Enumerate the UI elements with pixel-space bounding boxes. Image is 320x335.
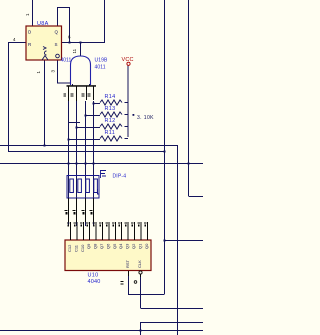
resistor R11 (100, 136, 122, 141)
wire (76, 101, 78, 226)
svg-text:U8A: U8A (37, 21, 49, 27)
wire (188, 0, 190, 196)
svg-text:CLK: CLK (137, 260, 142, 268)
net label glyphs below dip (65, 210, 93, 215)
svg-text:Q1: Q1 (137, 243, 142, 249)
wire (125, 103, 129, 139)
wire (77, 127, 101, 129)
counter U10 top pin stubs and numbers (71, 222, 148, 240)
svg-text:RST: RST (125, 259, 130, 268)
wire (8, 151, 164, 153)
wire (128, 276, 130, 294)
resistor R14 (100, 100, 122, 105)
wire (128, 294, 165, 296)
svg-text:DIP-4: DIP-4 (113, 174, 127, 180)
wire (86, 115, 101, 117)
wire (32, 0, 34, 26)
svg-text:Q5: Q5 (112, 243, 117, 249)
svg-text:Q7: Q7 (99, 243, 104, 249)
wire (140, 322, 142, 335)
resistor R12 (100, 124, 122, 129)
value annotation 10K (133, 114, 155, 121)
svg-text:Q2: Q2 (131, 243, 136, 249)
counter U10 bottom pins (129, 271, 141, 277)
wire (62, 42, 106, 44)
svg-text:S: S (55, 42, 58, 47)
svg-text:C12: C12 (67, 244, 72, 252)
clock bubble (139, 271, 142, 274)
wire (141, 322, 204, 324)
svg-text:U10: U10 (88, 273, 99, 279)
wire (140, 274, 142, 308)
wire (58, 60, 71, 83)
wire (94, 103, 101, 105)
svg-text:R14: R14 (105, 94, 116, 100)
dip switch SW1 body (67, 176, 99, 199)
wire (177, 145, 179, 335)
counter U10 pin names rotated (67, 243, 149, 268)
wire (0, 145, 177, 147)
crystal X1 (69, 87, 77, 101)
wire (58, 8, 70, 43)
wire (8, 42, 26, 44)
dip switch SW glyph (101, 171, 107, 179)
svg-text:4011: 4011 (61, 58, 72, 64)
svg-text:R12: R12 (105, 118, 116, 124)
crystal network top bar (67, 85, 97, 87)
wire (189, 196, 204, 198)
wire (80, 42, 82, 56)
flip-flop U8A body (26, 21, 62, 60)
svg-text:R13: R13 (105, 106, 116, 112)
dip switch elements (70, 179, 99, 194)
pin number 10 (134, 281, 137, 284)
svg-text:C10: C10 (80, 244, 85, 252)
crystal X2 (87, 87, 94, 100)
svg-text:Q4: Q4 (118, 243, 123, 249)
wire (141, 308, 204, 310)
resistor R13 (100, 112, 122, 117)
svg-text:Q8: Q8 (93, 243, 98, 249)
wire (93, 101, 95, 226)
wire (69, 122, 80, 124)
svg-text:4040: 4040 (88, 279, 101, 285)
U8A pin CLK (42, 47, 48, 61)
svg-text:R11: R11 (105, 130, 116, 136)
wire (8, 42, 10, 151)
svg-text:Q9: Q9 (86, 243, 91, 249)
svg-text:Q6: Q6 (105, 243, 110, 249)
wire (0, 330, 203, 332)
wire (69, 139, 101, 141)
svg-text:3. 10K: 3. 10K (137, 115, 154, 121)
nand gate U19B body (71, 56, 91, 85)
svg-text:4011: 4011 (95, 65, 106, 71)
counter U10 body (65, 240, 151, 271)
svg-text:C11: C11 (73, 244, 78, 252)
wire (69, 198, 94, 222)
crystal pin glyphs (64, 94, 91, 97)
svg-text:U19B: U19B (95, 58, 108, 64)
wire (44, 60, 46, 145)
wire (0, 163, 203, 165)
wire (164, 0, 166, 294)
U8A pin Qbar bubble (56, 54, 60, 58)
svg-text:Q0: Q0 (144, 243, 149, 249)
svg-text:Q: Q (55, 30, 59, 35)
wire (127, 65, 129, 137)
wire (165, 240, 204, 242)
node junction dots (44, 42, 190, 332)
wire (104, 0, 106, 42)
pin number 11 (121, 281, 124, 285)
VCC symbol (122, 57, 134, 65)
wire (73, 84, 90, 86)
svg-text:11: 11 (72, 48, 77, 53)
wire (85, 101, 87, 226)
svg-text:Q3: Q3 (125, 243, 130, 249)
wire (68, 101, 70, 226)
